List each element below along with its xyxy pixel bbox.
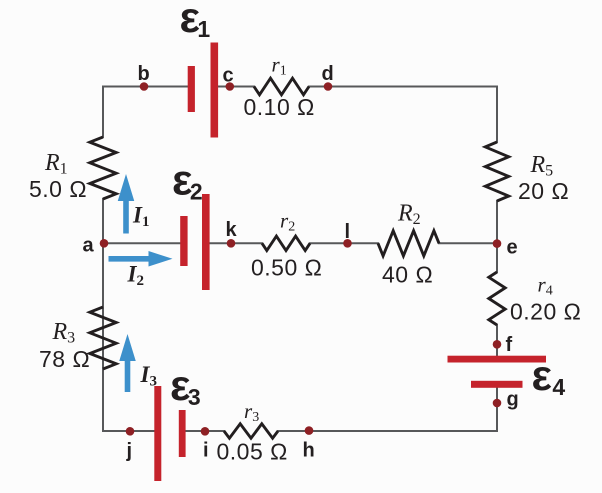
svg-text:k: k xyxy=(226,219,238,241)
svg-text:e: e xyxy=(507,237,518,259)
svg-text:78 Ω: 78 Ω xyxy=(39,346,90,372)
svg-text:b: b xyxy=(138,63,150,85)
svg-text:l: l xyxy=(345,221,351,243)
svg-text:d: d xyxy=(322,63,334,85)
svg-text:0.20 Ω: 0.20 Ω xyxy=(510,299,581,325)
svg-text:c: c xyxy=(223,65,234,87)
svg-text:h: h xyxy=(303,440,315,462)
svg-text:0.10 Ω: 0.10 Ω xyxy=(244,94,315,120)
svg-text:j: j xyxy=(126,440,133,462)
svg-text:0.05 Ω: 0.05 Ω xyxy=(217,439,288,465)
svg-text:5.0 Ω: 5.0 Ω xyxy=(29,176,87,202)
svg-text:i: i xyxy=(203,440,209,462)
svg-text:a: a xyxy=(83,235,95,257)
svg-text:40 Ω: 40 Ω xyxy=(382,262,433,288)
svg-text:f: f xyxy=(506,334,513,356)
svg-text:20 Ω: 20 Ω xyxy=(518,178,569,204)
svg-text:g: g xyxy=(507,389,519,411)
svg-text:0.50 Ω: 0.50 Ω xyxy=(251,255,322,281)
